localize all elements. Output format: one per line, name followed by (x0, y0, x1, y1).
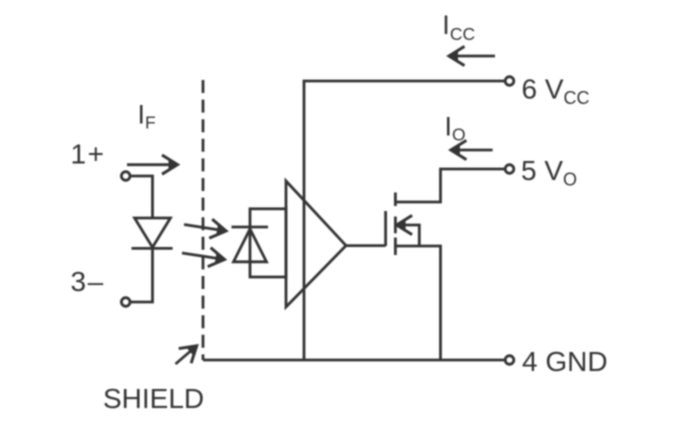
terminal 3 cathode pin circle (121, 298, 130, 307)
svg-text:ICC: ICC (442, 10, 475, 44)
photodiode (232, 227, 269, 262)
light emission arrow lower (182, 248, 226, 269)
svg-text:6 VCC: 6 VCC (522, 74, 590, 109)
svg-text:IO: IO (445, 112, 466, 145)
svg-text:1+: 1+ (71, 139, 106, 170)
wire ground rail (203, 359, 505, 362)
terminal 4 GND pin circle (505, 356, 514, 365)
amplifier triangle (286, 181, 346, 307)
light emission arrow upper (184, 219, 228, 240)
svg-text:SHIELD: SHIELD (103, 383, 204, 414)
wire cathode: LED to pin 3 (130, 248, 152, 302)
MOSFET Q1 (386, 193, 396, 256)
shield pointer arrow (176, 338, 204, 364)
terminal 1 anode pin circle (121, 172, 130, 181)
wire amplifier output to gate (346, 244, 386, 247)
wire drain to pin 5 (395, 169, 505, 202)
svg-text:5 VO: 5 VO (521, 155, 577, 190)
terminal 6 Vcc pin circle (505, 77, 514, 86)
svg-text:3–: 3– (71, 266, 105, 297)
svg-text:IF: IF (138, 100, 156, 133)
photodetector box (250, 209, 286, 277)
svg-text:4 GND: 4 GND (522, 346, 608, 377)
wire source to ground rail (395, 246, 440, 360)
wire anode: pin 1 to LED (130, 176, 152, 218)
current arrow Io (450, 140, 492, 159)
terminal 5 Vo pin circle (505, 165, 514, 174)
LED input diode (132, 218, 173, 248)
wire Vcc rail (304, 81, 505, 360)
shield isolation dashed line (202, 80, 205, 360)
current arrow Icc (449, 46, 496, 65)
current arrow IF (127, 155, 178, 174)
MOSFET body arrow (396, 215, 419, 246)
